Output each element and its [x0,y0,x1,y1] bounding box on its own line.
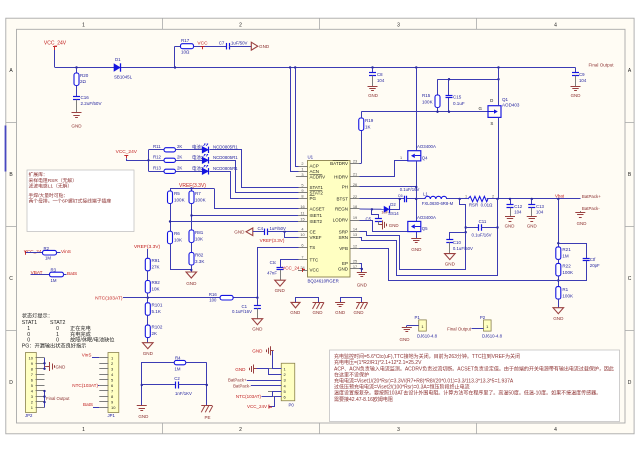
resistor R3 [50,272,67,277]
svg-text:DJ610-4.8: DJ610-4.8 [417,333,438,338]
ground C10 [445,254,456,267]
svg-text:D: D [490,98,493,103]
label RSR pin 2 [492,195,494,199]
net BatPack+ at P0 [228,378,281,383]
svg-text:R17: R17 [181,38,190,43]
svg-text:21: 21 [353,172,357,177]
power symbol VCC [201,46,205,49]
svg-text:R7: R7 [195,191,201,196]
wire Q5 source [416,232,418,238]
svg-text:FXL0630-6R8-M: FXL0630-6R8-M [422,201,454,206]
label C1 [232,304,252,314]
svg-text:C13: C13 [536,204,545,209]
svg-text:充电完成: 充电完成 [70,330,91,338]
svg-text:16: 16 [300,204,304,209]
svg-text:100K: 100K [562,293,573,298]
svg-text:C16: C16 [81,95,90,100]
op-amp U1 BQ24610RGER body [308,161,351,278]
svg-text:R12: R12 [153,154,162,159]
capacitor C12 [507,199,514,217]
svg-text:滤波电感L1（无解）: 滤波电感L1（无解） [29,182,73,189]
svg-text:AOD403: AOD403 [502,102,520,107]
label R92 [152,280,161,292]
svg-text:23: 23 [353,158,357,163]
svg-text:扩展库：: 扩展库： [29,171,48,178]
svg-text:故障/休眠/电池缺位: 故障/休眠/电池缺位 [70,336,114,344]
net VCC_24V at P0 [247,397,282,410]
net NTC(103AT) label [95,295,123,301]
svg-text:R81: R81 [195,230,204,235]
svg-text:在这里不设保护: 在这里不设保护 [334,371,369,378]
svg-text:BatS: BatS [67,271,77,276]
junction REGN/C5 [371,208,373,210]
ground C13 [527,217,537,229]
svg-text:BTST: BTST [336,197,348,202]
wire PH pin [360,186,417,188]
svg-text:EP: EP [342,261,348,266]
junction top rail / C15 [448,78,450,80]
svg-text:3: 3 [301,172,303,177]
svg-text:VCC: VCC [197,40,208,46]
label 电池1 [192,144,204,150]
svg-text:0.01Ω: 0.01Ω [481,203,493,208]
label C7 [219,40,248,45]
wire ISET2 [170,221,298,223]
junction SRP/C10 [465,231,467,233]
svg-text:C6: C6 [398,193,403,198]
LED R13 [202,165,208,174]
svg-text:10: 10 [111,405,116,410]
svg-text:GND: GND [335,310,346,315]
ground C9 [571,87,581,99]
capacitor C4 [253,229,298,236]
svg-text:0.1uF: 0.1uF [453,101,465,106]
svg-text:过低压预充电电流=Viset2/(100*Rsr)=0.3A: 过低压预充电电流=Viset2/(100*Rsr)=0.3A=恒压阶段终止电流 [334,384,470,391]
svg-text:19: 19 [353,215,357,220]
svg-text:25: 25 [353,258,357,263]
svg-text:ACP、ACN负责输入电流监测。ACDRV负责过流切断。AC: ACP、ACN负责输入电流监测。ACDRV负责过流切断。ACSET负责设定值。由… [334,365,614,372]
svg-text:5.1K: 5.1K [152,309,161,314]
svg-text:ISET1: ISET1 [310,213,323,218]
svg-text:0.1uF/50V: 0.1uF/50V [453,246,473,251]
svg-text:12: 12 [353,243,357,248]
svg-text:NCD0805R1: NCD0805R1 [213,145,238,150]
capacitor C9 [572,68,579,87]
svg-text:D1: D1 [115,57,121,62]
svg-text:4: 4 [554,427,557,433]
svg-text:ISET2: ISET2 [310,219,323,224]
wire ISET1 [192,215,299,217]
svg-text:10: 10 [29,355,34,360]
svg-text:GND: GND [138,414,149,419]
resistor R92 [145,281,150,303]
transistor Q1 [488,68,501,200]
svg-text:R20: R20 [80,73,89,78]
note box expansion [27,170,134,232]
transistor Q5 [408,221,421,231]
label R82 [195,252,204,263]
svg-text:104: 104 [514,209,522,214]
svg-text:ACSET: ACSET [310,207,325,212]
svg-text:C2: C2 [174,376,180,381]
resistor R4 [174,360,207,364]
svg-text:GND: GND [234,230,245,235]
wire Q1 gate rail [361,111,488,113]
net Final Output at JP2 [46,396,70,401]
capacitor C5 [372,210,382,225]
resistor R2 [43,250,61,255]
capacitor C8 [369,68,376,87]
svg-text:NTC(103AT): NTC(103AT) [236,394,262,399]
svg-text:1: 1 [400,156,402,160]
svg-text:C11: C11 [479,219,487,224]
svg-text:1M: 1M [51,278,57,283]
svg-text:26: 26 [353,182,357,187]
connector P1 [415,315,438,339]
label SS14 [388,211,399,216]
svg-text:NTC(103AT): NTC(103AT) [95,295,123,301]
junction D2/BTST [399,198,401,200]
label R12 2K [177,155,182,160]
label Q1 S [490,121,493,126]
resistor R12 [149,158,203,162]
label R13 part [213,166,238,171]
svg-text:NCD0805R1: NCD0805R1 [213,155,238,160]
svg-text:RSR: RSR [469,203,478,208]
resistor R11 [149,148,203,152]
svg-text:R101: R101 [152,302,163,307]
resistor R16 [220,295,233,300]
svg-text:2: 2 [239,22,242,28]
wire P1 to ground [407,326,419,328]
label R81 [195,230,204,242]
capacitor Ctc [277,268,284,281]
svg-text:10K: 10K [152,287,160,292]
svg-text:GND: GND [577,221,587,226]
label R2 [44,246,50,251]
stub ACDRV [296,176,298,178]
svg-text:GND: GND [553,316,564,321]
junction NTC/divider [147,297,149,299]
connector P2 [480,315,503,339]
label R12 [153,154,162,159]
svg-text:JP2: JP2 [25,413,33,418]
wire bus to ACP [296,68,299,167]
svg-text:Final Output: Final Output [447,326,472,331]
resistor R81 [189,230,194,253]
label R20 [80,73,89,84]
svg-text:1: 1 [82,22,85,28]
label C11 [471,219,491,237]
junction bus/R17 [174,66,176,68]
svg-text:GND: GND [259,44,270,49]
svg-text:BATDRV: BATDRV [330,161,348,166]
power symbol VCC_24V [53,47,57,51]
svg-text:SRP: SRP [339,229,348,234]
wire REGN [360,208,384,210]
svg-text:P2: P2 [480,315,486,320]
resistor R91 [145,249,150,281]
svg-text:1uF/50V: 1uF/50V [231,40,248,45]
label R1 [562,287,573,299]
label BQ24610RGER [308,278,339,283]
LED R11 [202,144,208,153]
svg-text:4: 4 [554,22,557,28]
label C5 [365,217,371,222]
net VCC label [197,40,208,46]
label C4 [258,226,287,231]
svg-text:D: D [9,380,13,386]
svg-text:充电监控时间=5.6*Ctc(uF),TTC接地为关闭，目前: 充电监控时间=5.6*Ctc(uF),TTC接地为关闭，目前为263分钟。TTC… [334,353,520,360]
svg-text:PG：开漏输出状态良好指示: PG：开漏输出状态良好指示 [22,342,87,350]
wire Q4 source / PH node [416,161,418,222]
label Q1 G [479,106,483,111]
ground tie pair 1 (signal/chassis) [290,298,324,315]
label L1 [423,192,428,197]
junction CE/VREF [283,231,285,233]
capacitor C2 [142,382,207,389]
label U1 [308,155,314,160]
label R16 [209,292,217,302]
svg-text:HIDRV: HIDRV [334,175,348,180]
junction rail/C12 [509,198,511,200]
label R11 2K [177,144,182,149]
svg-text:2Ω: 2Ω [80,79,87,84]
junction ISET1/R7 [190,214,192,216]
wire R15/C15 top rail [438,79,499,81]
svg-text:U1: U1 [308,155,314,160]
svg-text:0.1uF/16V: 0.1uF/16V [232,309,252,314]
svg-text:Q5: Q5 [422,226,428,231]
svg-text:D2: D2 [390,202,396,207]
svg-text:Q4: Q4 [422,155,428,160]
svg-text:13: 13 [353,232,357,237]
svg-text:3.3K: 3.3K [195,259,204,264]
svg-text:1nF/1KV: 1nF/1KV [175,391,192,396]
junction GND/C2 [141,384,143,386]
wire Vbat divider drop [558,199,560,247]
svg-text:R1: R1 [562,287,568,292]
svg-text:SS14: SS14 [388,211,399,216]
svg-text:R4: R4 [175,356,181,361]
label AO3400A (Q4) [417,144,436,149]
wire SRN route [360,199,498,276]
ground tie pair 2 (power/chassis) [335,298,368,315]
wire VREF to ACSET [215,189,299,209]
label R11 part [213,145,238,150]
resistor R17 [175,44,227,68]
capacitor C10 [446,233,465,254]
power symbol VCC_24V (LED block) [124,155,128,158]
wire LED rail vertical [148,150,150,172]
svg-text:1M: 1M [175,367,181,372]
svg-text:VCC_24V: VCC_24V [44,41,67,47]
svg-text:22: 22 [353,194,357,199]
ground C8 [368,87,378,99]
svg-text:R21: R21 [562,247,571,252]
resistor R7 [189,188,194,230]
svg-text:GND: GND [252,327,263,332]
svg-text:温度设置报复杂。要按照103AT去设计外围电阻。计算方法写在: 温度设置报复杂。要按照103AT去设计外围电阻。计算方法写在程序里了。高温50度… [334,390,601,397]
note box main [330,350,620,422]
net NTC(103AT) at P0 [236,392,282,399]
svg-text:SRN: SRN [338,235,348,240]
resistor R15 [435,79,440,112]
net VREF(3.3V) chain label [134,244,161,250]
junction PH [415,186,417,188]
svg-text:VCC_24: VCC_24 [282,266,300,271]
wire P0 pin2 gnd [254,369,282,375]
ground PE chassis [201,406,213,420]
svg-text:L1: L1 [423,192,428,197]
junction L1/RSR/SRP [459,198,461,200]
U1 right pins [330,158,359,271]
svg-text:100K: 100K [422,100,433,105]
U1 left pins [298,161,325,273]
svg-text:2.2uF/50V: 2.2uF/50V [81,101,103,106]
svg-text:1uF: 1uF [381,210,388,215]
svg-text:2K: 2K [177,155,182,160]
svg-text:AO3400A: AO3400A [417,144,436,149]
capacitor C13 [528,199,535,217]
svg-text:R5: R5 [174,191,180,196]
label R4 1M [175,367,181,372]
junction gate rail/C15 [448,111,450,113]
junction EP/GND [361,268,363,270]
net BatPack+ label [582,194,601,199]
svg-text:BatPack-: BatPack- [233,383,251,388]
label AOD403 [502,102,520,107]
svg-text:LODRV: LODRV [333,218,348,223]
svg-text:Final Output: Final Output [589,63,615,68]
svg-text:100K: 100K [562,270,573,275]
capacitor C16 [73,97,80,114]
power symbol VCC pin [302,268,305,272]
junction bus/ACN [289,66,291,68]
svg-text:8: 8 [301,193,303,198]
svg-text:Final Output: Final Output [46,396,70,401]
svg-text:充电电压=(1*R2/R1)*2.1+12*2.1=25.2: 充电电压=(1*R2/R1)*2.1+12*2.1=25.2V [334,359,422,366]
svg-text:需要接42.47-8.16欧姆电阻: 需要接42.47-8.16欧姆电阻 [334,396,393,403]
svg-text:VinS: VinS [61,249,71,254]
label C12 [514,204,523,214]
wire PE vertical [206,363,208,406]
svg-text:PE: PE [204,415,210,420]
svg-text:VinS: VinS [82,353,92,358]
junction top rail / Q1 drain [497,78,499,80]
svg-text:C10: C10 [453,240,462,245]
svg-text:状态灯提示：: 状态灯提示： [22,312,53,320]
svg-text:GND: GND [389,223,399,228]
ground R1 [553,308,564,321]
svg-text:1M: 1M [45,256,51,261]
svg-text:PH: PH [342,185,348,190]
junction NTC/C1 [256,297,258,299]
svg-text:R82: R82 [195,252,204,257]
capacitor C15 [446,79,453,112]
wire P0 pin1 gnd [271,351,282,369]
connector JP1 [99,353,119,418]
label R6 [174,231,182,243]
label R7 [195,191,206,203]
svg-text:GND: GND [445,261,456,266]
svg-text:BatPack+: BatPack+ [582,194,601,199]
ground C4 (left arrow) [234,228,253,236]
ground C12 [505,217,515,229]
svg-text:GND: GND [313,310,324,315]
svg-text:2K: 2K [177,144,182,149]
wire VCC to LED rail [127,159,149,161]
junction rail/C13 [531,198,533,200]
net VREF(3.3V) at pin [260,238,285,243]
label C2 [174,376,180,381]
junction PE/C2 [206,384,208,386]
net VBAT [31,270,50,275]
net Final Output at P2 [447,326,483,331]
ground P1 [400,328,412,343]
label C13 [536,204,545,214]
left border blue segment [5,126,7,172]
label 电池2 [192,154,204,160]
label Q4 gate pin 1 [400,156,402,160]
svg-text:R2: R2 [44,246,50,251]
resistor R101 [145,303,150,325]
ground Ctc [275,280,286,293]
svg-text:27K: 27K [152,264,160,269]
svg-text:ACP: ACP [310,164,319,169]
svg-text:10Ω: 10Ω [181,49,190,54]
svg-text:VREF(3.3V): VREF(3.3V) [134,244,161,250]
wire to VREF pin [285,232,299,238]
svg-text:R102: R102 [152,325,163,330]
ground GND net [137,406,149,419]
label Q4 [422,155,428,160]
svg-text:JP1: JP1 [108,413,116,418]
label D1 [115,57,121,62]
net BatS [67,271,77,276]
net NTC(103AT) at JP1 [72,383,99,388]
svg-text:5: 5 [301,182,303,187]
label R12 part [213,155,238,160]
junction bus/Q1 drain [497,66,499,68]
capacitor C7 [227,43,252,50]
svg-text:2: 2 [492,195,494,199]
diode D1 [114,63,121,71]
svg-text:GND: GND [571,93,581,98]
wire TTC [281,260,299,268]
ground C5 (sideways) [378,220,398,229]
label R11 [153,144,161,149]
wire LED R13 to U1 [210,172,299,199]
svg-text:100K: 100K [195,197,206,202]
wire SRP route [360,199,466,270]
svg-text:DJ610-4.8: DJ610-4.8 [482,333,503,338]
label R3 1M [51,278,57,283]
label D2 [390,202,396,207]
resistor R6 [168,231,192,270]
label R13 2K [177,166,182,171]
svg-text:104: 104 [536,209,544,214]
capacitor Ctf [559,244,590,281]
svg-text:VREF: VREF [310,235,322,240]
svg-text:STAT2: STAT2 [310,191,324,196]
label Q1 D [490,98,493,103]
svg-text:BatPack+: BatPack+ [228,378,247,383]
svg-text:1: 1 [82,427,85,433]
svg-text:1: 1 [301,166,303,171]
label R15 [422,93,433,105]
svg-text:2K: 2K [177,166,182,171]
